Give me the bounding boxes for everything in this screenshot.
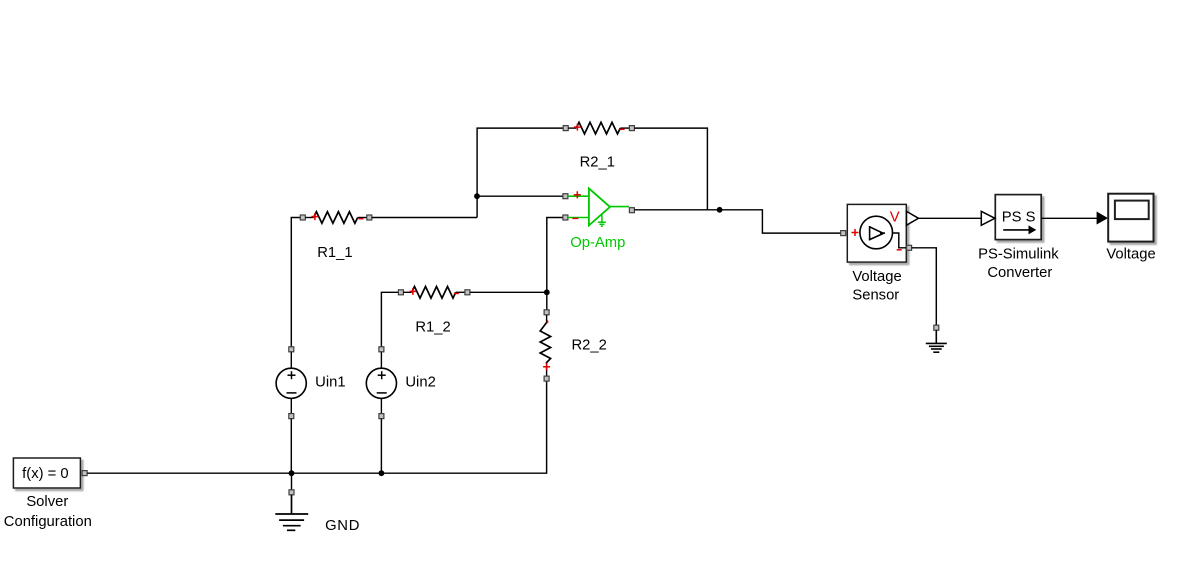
wire: Uin2 bottom to bus: [380, 419, 382, 474]
node: junction Uin2 bottom: [379, 470, 385, 476]
svg-text:Voltage: Voltage: [852, 269, 901, 285]
wire: PS converter to scope: [1041, 217, 1097, 219]
wire: Uin1 top to R1_1: [291, 218, 300, 347]
wire: bottom ground bus from solver to R2_2 bottom: [87, 381, 546, 473]
svg-text:Converter: Converter: [987, 265, 1052, 281]
wire: R2_1 to output node: [634, 128, 707, 210]
label Voltage Sensor: [852, 269, 901, 303]
wire: node down to R2_2: [546, 292, 548, 310]
svg-text:f(x) = 0: f(x) = 0: [22, 466, 68, 482]
solver configuration output port: [82, 471, 87, 476]
node: junction output/feedback: [717, 207, 723, 213]
voltage source Uin2: [366, 347, 396, 419]
svg-text:R1_1: R1_1: [317, 245, 352, 261]
wire: feedback riser to R2_1: [477, 128, 563, 217]
svg-text:Uin1: Uin1: [315, 375, 345, 391]
arrowhead into scope: [1097, 212, 1108, 225]
wire: Uin1 bottom to bus: [290, 419, 292, 474]
resistor R2_2 (vertical): [540, 310, 550, 381]
scope block Voltage: [1108, 194, 1153, 242]
label Solver Configuration: [4, 494, 92, 530]
solver configuration block f(x)=0: [13, 458, 80, 488]
ground (sensor reference) port: [934, 325, 939, 330]
svg-text:PS S: PS S: [1002, 209, 1036, 225]
svg-text:Voltage: Voltage: [1106, 247, 1155, 263]
label PS-Simulink Converter: [978, 247, 1059, 281]
wire: node up to op-amp - input: [547, 218, 563, 293]
ground GND symbol: [275, 495, 308, 531]
wire: R1_2 to node: [470, 291, 547, 293]
wire: op-amp output to sensor: [634, 210, 840, 233]
resistor R1_2: [398, 287, 470, 299]
wire: sensor output to PS converter: [919, 217, 982, 219]
wire: sensor - to ground: [912, 248, 937, 325]
svg-text:R1_2: R1_2: [415, 320, 450, 336]
svg-text:Solver: Solver: [26, 494, 68, 510]
resistor R1_1: [300, 212, 372, 224]
svg-text:Uin2: Uin2: [405, 375, 435, 391]
svg-text:R2_1: R2_1: [580, 154, 615, 170]
svg-text:R2_2: R2_2: [572, 338, 607, 354]
node: junction R1_2/R2_2: [544, 289, 550, 295]
wire: Uin2 top to R1_2: [381, 292, 398, 347]
svg-text:Configuration: Configuration: [4, 514, 92, 530]
PS-Simulink converter block: [981, 195, 1041, 240]
svg-text:Sensor: Sensor: [852, 287, 899, 303]
voltage sensor block: [841, 204, 919, 262]
voltage source Uin1: [276, 347, 306, 419]
wire: R1_1 to feedback node: [372, 217, 477, 219]
op-amp Op-Amp: [563, 188, 635, 226]
svg-text:PS-Simulink: PS-Simulink: [978, 247, 1059, 263]
ground (sensor reference) symbol: [926, 330, 947, 352]
resistor R2_1: [563, 122, 634, 134]
svg-text:Op-Amp: Op-Amp: [570, 235, 625, 251]
svg-text:GND: GND: [325, 518, 360, 534]
node: junction Uin1 bottom / GND: [289, 470, 295, 476]
svg-text:V: V: [890, 210, 900, 226]
GND port: [289, 490, 294, 495]
node: junction + input: [474, 193, 480, 199]
wire: to op-amp + input: [477, 195, 563, 197]
wire: GND branch: [291, 473, 293, 490]
